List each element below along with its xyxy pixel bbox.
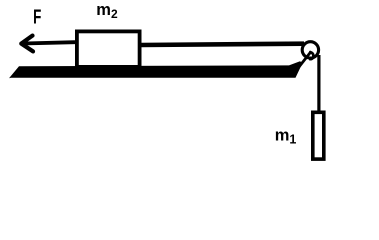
- force arrow F head: [21, 36, 33, 52]
- wire string vertical (pulley to m1): [317, 55, 320, 112]
- block m2: [77, 31, 140, 67]
- wire pulley center hook: [310, 52, 313, 59]
- pulley: [302, 42, 318, 58]
- table: [9, 61, 303, 78]
- wire table-tip stroke into pulley center: [299, 52, 311, 67]
- wire string horizontal (block to pulley): [141, 44, 304, 45]
- svg-text:F: F: [33, 7, 41, 29]
- force arrow F shaft: [23, 42, 75, 43]
- block m1: [313, 112, 324, 159]
